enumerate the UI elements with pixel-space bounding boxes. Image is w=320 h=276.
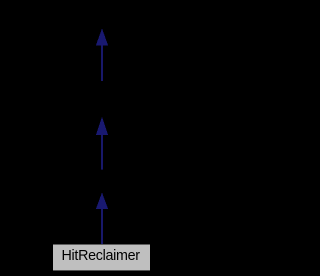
arrow to top node: head bbox=[96, 29, 107, 45]
node HitReclaimer bbox=[53, 244, 150, 270]
arrow from HitReclaimer: head bbox=[96, 193, 107, 208]
inheritance arrows bbox=[0, 0, 204, 276]
arrow to middle node: head bbox=[96, 118, 107, 135]
arrow from HitReclaimer: shaft bbox=[101, 209, 103, 245]
arrow to middle node: shaft bbox=[101, 135, 103, 170]
arrow to top node: shaft bbox=[101, 45, 103, 81]
